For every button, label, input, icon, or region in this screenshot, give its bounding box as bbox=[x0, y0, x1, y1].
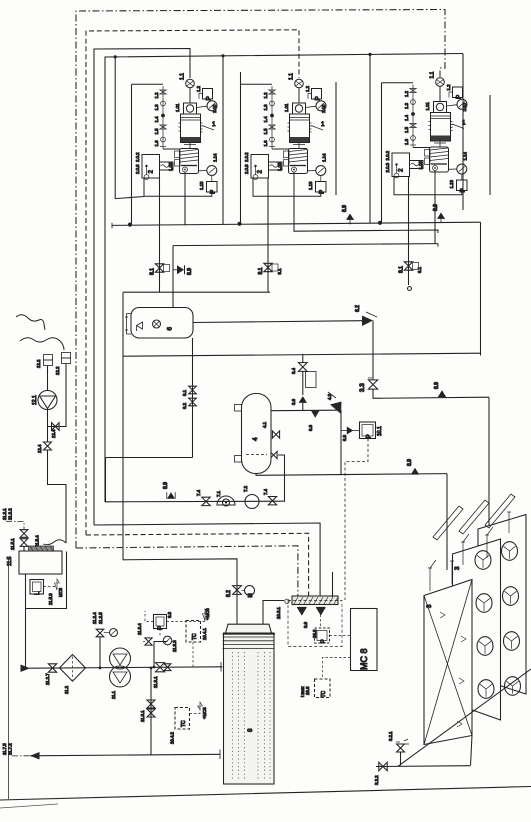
solenoid valve 8.9 (left injector) bbox=[297, 607, 307, 615]
wire: 3.3 down and right to condenser feed bbox=[373, 390, 489, 399]
svg-text:1.2: 1.2 bbox=[446, 84, 451, 91]
node: leader to item 1 bbox=[311, 126, 323, 131]
svg-text:1.14: 1.14 bbox=[213, 153, 218, 162]
svg-text:8.9: 8.9 bbox=[163, 482, 169, 489]
svg-text:1.13: 1.13 bbox=[449, 180, 454, 189]
valve 6.2 (angle valve) bbox=[362, 316, 373, 327]
svg-text:9.2: 9.2 bbox=[182, 402, 187, 409]
wire: unit3 right enclosure line bbox=[489, 95, 491, 195]
node: oil cooler drain bbox=[144, 175, 149, 180]
svg-text:12.4: 12.4 bbox=[51, 429, 56, 438]
level switch LS 11.5.3 bbox=[30, 580, 44, 595]
svg-text:8.1: 8.1 bbox=[399, 266, 405, 273]
svg-text:1.5: 1.5 bbox=[263, 128, 268, 135]
wire: dashed P6.3 to MC8 arrow bbox=[145, 611, 154, 622]
wire: dropper from unit3 oil cooler to valve 8.1 bbox=[408, 176, 410, 285]
svg-text:1.3: 1.3 bbox=[154, 104, 159, 111]
svg-text:10.4.1: 10.4.1 bbox=[202, 627, 207, 640]
wire: discharge header bus (innermost) bbox=[105, 54, 463, 503]
wire: dashed MC8 to TC 10.6 bbox=[322, 658, 350, 680]
svg-text:1.2: 1.2 bbox=[196, 85, 201, 92]
svg-text:2: 2 bbox=[148, 170, 155, 174]
valve 11.6.1 (double) bbox=[147, 700, 155, 708]
svg-text:P: P bbox=[456, 95, 463, 99]
gauge 11.3.3 bbox=[163, 636, 172, 645]
wire: oil drain down bbox=[184, 172, 186, 196]
valve 8.2 bbox=[233, 586, 242, 595]
svg-text:8.9: 8.9 bbox=[342, 434, 347, 441]
oil separator 1.03 bbox=[430, 147, 449, 172]
wire: 6.2 down to 3.3 bbox=[372, 321, 374, 380]
wire: chain bottom to body bbox=[272, 148, 289, 150]
svg-text:1.14: 1.14 bbox=[463, 152, 468, 161]
node: leader to item 1 bbox=[452, 124, 464, 129]
wire: flexible hose branch 12.2 bbox=[20, 338, 64, 350]
svg-text:11.3.4: 11.3.4 bbox=[137, 623, 142, 635]
wire: condensate outlet line bbox=[376, 765, 470, 768]
svg-text:11.2.2: 11.2.2 bbox=[8, 508, 13, 520]
wire: left page frame line bbox=[8, 557, 10, 799]
svg-text:2: 2 bbox=[398, 168, 405, 172]
check valve 8.9 on suction header (left) bbox=[346, 213, 354, 219]
svg-text:3.6: 3.6 bbox=[291, 398, 296, 405]
wire: chain bottom to body bbox=[413, 147, 430, 149]
wire: dashed 10.2 to MC8 bbox=[330, 635, 352, 637]
svg-text:11.5: 11.5 bbox=[7, 556, 13, 566]
svg-text:3.3: 3.3 bbox=[359, 383, 366, 392]
valve 3.2.2 bbox=[379, 762, 387, 770]
node: column outlet 4.6.2 bbox=[219, 750, 221, 760]
svg-text:8.9: 8.9 bbox=[303, 621, 308, 628]
pressure switch P 6.3 bbox=[154, 615, 167, 629]
heat exchanger coil of oil cooler bbox=[410, 161, 424, 169]
flange rings of column 8 bbox=[223, 637, 275, 648]
svg-text:11.7.2: 11.7.2 bbox=[8, 743, 13, 755]
svg-text:1.2: 1.2 bbox=[305, 85, 310, 92]
wire: unit bottom piping bbox=[144, 178, 212, 196]
wire: to pump 12.1 bbox=[47, 366, 49, 391]
svg-text:1: 1 bbox=[321, 121, 325, 128]
svg-text:+MC8: +MC8 bbox=[202, 707, 207, 719]
wire: long suction header y=224 bbox=[112, 222, 481, 225]
svg-text:1.6: 1.6 bbox=[263, 140, 268, 147]
heater grid on tank 11.5 bbox=[29, 546, 54, 551]
valve 8.1 (unit1 liquid feed) bbox=[155, 264, 163, 272]
svg-text:t max: t max bbox=[300, 686, 305, 697]
svg-text:8.9: 8.9 bbox=[434, 382, 440, 389]
svg-text:1.10: 1.10 bbox=[462, 103, 467, 112]
svg-text:1.2: 1.2 bbox=[263, 92, 268, 99]
valve 11.3.4 bbox=[145, 638, 152, 645]
valve 9.1 bbox=[189, 386, 197, 394]
wire: column top to distributor bbox=[263, 601, 284, 625]
svg-text:P: P bbox=[206, 96, 213, 100]
pump 7.1 bbox=[217, 496, 235, 505]
wire: bottom page frame line bbox=[0, 787, 531, 801]
node: receiver inlet dot bbox=[172, 307, 175, 310]
valve chain 1.2-1.6 (unloaders) bbox=[162, 86, 164, 149]
injection header 10.3.1 (hatched) bbox=[292, 596, 338, 605]
wire: perspective pipe to condenser bases bbox=[398, 669, 531, 766]
safety valve mark on vessel 6 bbox=[137, 322, 143, 331]
wire: down to transfer line bbox=[48, 450, 67, 543]
nozzle: vessel 4 upper left bbox=[235, 405, 242, 412]
motor M of agitator bbox=[245, 586, 255, 596]
dashed enclosure around injectors bbox=[288, 601, 342, 647]
valve 11.5.1 (upper) bbox=[20, 530, 28, 538]
svg-text:10.6: 10.6 bbox=[305, 686, 310, 695]
wire: TC dashed drop bbox=[192, 642, 194, 667]
svg-text:12.4: 12.4 bbox=[37, 444, 42, 453]
wire: vessel 4 vapor line bbox=[271, 409, 337, 412]
wire: chain top to enclosure bbox=[132, 83, 164, 85]
svg-text:8: 8 bbox=[247, 728, 254, 732]
fans of rear condenser bbox=[502, 542, 518, 561]
pressure switch P 1.13 bbox=[320, 176, 322, 182]
wire: unit1 oil drain extension bbox=[184, 196, 186, 225]
svg-text:4.3: 4.3 bbox=[327, 393, 332, 400]
svg-text:1.10: 1.10 bbox=[212, 104, 217, 113]
wire: dropper from unit1 oil cooler to valve 8.1 bbox=[159, 178, 161, 292]
valve 3.4 bbox=[302, 354, 304, 363]
main process line into column bbox=[30, 667, 223, 668]
wire: dashed P6.3 to line bbox=[159, 629, 161, 638]
valve 1.1 (suction inlet) bbox=[186, 79, 195, 88]
wire: bus 2 bottom run to dropper bbox=[86, 533, 309, 597]
node: leader to item 1 bbox=[202, 126, 214, 131]
valve 11.5.1 (lower) bbox=[20, 539, 28, 547]
nozzle: distributor inlet bbox=[285, 599, 289, 603]
compressor 1 body bbox=[431, 113, 451, 142]
wire: vertical right of unit 3 bbox=[462, 54, 464, 211]
svg-text:1.14: 1.14 bbox=[322, 153, 327, 162]
wire: unit2 left enclosure line bbox=[240, 72, 242, 224]
arrow: return to plant bbox=[30, 752, 40, 760]
wire: header y=245 to third 8.1 valve area bbox=[173, 244, 438, 246]
svg-text:3.4: 3.4 bbox=[291, 367, 296, 374]
wire: flexible hose to pump 12.1 bbox=[16, 315, 45, 330]
svg-text:M: M bbox=[248, 593, 254, 597]
svg-text:2.0.2: 2.0.2 bbox=[244, 152, 249, 162]
pressure switch P 10.2 bbox=[315, 628, 330, 643]
svg-text:7.4: 7.4 bbox=[263, 488, 268, 495]
wire: minimum flow branch bbox=[99, 637, 101, 668]
svg-text:6.2: 6.2 bbox=[355, 305, 361, 312]
wire: oil drain down bbox=[434, 171, 436, 195]
flow marks on condenser faces bbox=[457, 636, 466, 727]
pressure switch P 1.2 bbox=[203, 89, 213, 100]
flange connection 12.2 (right) bbox=[62, 353, 71, 359]
svg-text:TC: TC bbox=[321, 690, 327, 697]
svg-text:11.6.1: 11.6.1 bbox=[140, 710, 145, 722]
svg-text:8.9: 8.9 bbox=[308, 424, 313, 431]
wire: long line y=356 to right bus bbox=[123, 353, 480, 356]
wire: body to separator bbox=[184, 143, 196, 149]
svg-text:1.4: 1.4 bbox=[154, 116, 159, 123]
svg-text:7.1: 7.1 bbox=[216, 490, 221, 497]
oil tank 11.5 bbox=[19, 551, 62, 574]
svg-text:11.2.4: 11.2.4 bbox=[92, 612, 97, 624]
svg-text:11.2.7: 11.2.7 bbox=[45, 673, 50, 685]
pump 7.2 bbox=[245, 495, 259, 509]
motor head 1.01 bbox=[184, 103, 197, 114]
evaporative condenser 3 (middle unit) bbox=[453, 539, 501, 720]
valve 1.03 block bbox=[284, 151, 290, 158]
svg-text:1.13: 1.13 bbox=[199, 181, 204, 190]
svg-text:2.0.2: 2.0.2 bbox=[385, 150, 390, 160]
svg-text:TC: TC bbox=[192, 633, 198, 640]
wire: vessel 6 to valve 6.2 bbox=[193, 321, 362, 323]
wire: dropper from unit2 oil cooler to valve 8.1 bbox=[267, 178, 269, 292]
evaporative condenser 3 (front unit, coil face) bbox=[424, 580, 472, 745]
svg-text:8.1: 8.1 bbox=[417, 266, 422, 273]
svg-text:12.2: 12.2 bbox=[36, 359, 41, 368]
valve 8.1 (unit3) bbox=[404, 262, 412, 270]
node: vessel 4 level line bbox=[246, 454, 267, 456]
wire: box line over receiver bbox=[123, 291, 270, 293]
wire: chain top to enclosure bbox=[382, 82, 414, 84]
svg-text:1: 1 bbox=[462, 120, 466, 127]
valve 4.1 bbox=[270, 434, 273, 436]
pressure switch P 1.13 bbox=[211, 176, 213, 182]
valve 8.1 (unit2) bbox=[264, 263, 272, 271]
svg-text:11.3.3: 11.3.3 bbox=[172, 640, 177, 652]
dip tubes inside column 8 bbox=[233, 652, 271, 779]
gauge 1.14 (oil pressure) bbox=[449, 168, 457, 170]
svg-text:1.3: 1.3 bbox=[404, 102, 409, 109]
svg-text:8.1: 8.1 bbox=[150, 268, 156, 275]
wire: tank drain to feed line bbox=[26, 609, 31, 669]
wire: bus continues right to condensate dropper bbox=[76, 546, 298, 597]
svg-text:8.1: 8.1 bbox=[258, 267, 264, 274]
svg-text:3.2.2: 3.2.2 bbox=[374, 775, 379, 785]
svg-text:1.1: 1.1 bbox=[430, 71, 436, 78]
arrow: feed from plant bbox=[21, 665, 31, 673]
svg-text:L: L bbox=[34, 591, 41, 595]
svg-text:2.0.3: 2.0.3 bbox=[135, 164, 140, 174]
svg-text:8.9: 8.9 bbox=[433, 204, 439, 211]
svg-text:3: 3 bbox=[426, 604, 433, 608]
wire: dropper from discharge header to unit1 piping bbox=[115, 57, 144, 199]
wire: suction line to unit 1 (solid bus) bbox=[94, 49, 190, 526]
svg-text:2.0.3: 2.0.3 bbox=[385, 162, 390, 172]
node: vessel 6 port bbox=[153, 320, 161, 328]
valve 1.03 block bbox=[425, 150, 431, 157]
strainer 11.2 bbox=[60, 655, 86, 682]
svg-text:7.4: 7.4 bbox=[196, 489, 201, 496]
valve 7.4 (pump inlet) bbox=[202, 497, 210, 505]
oil separator 1.03 bbox=[180, 149, 199, 174]
svg-text:9.1: 9.1 bbox=[182, 389, 187, 396]
svg-text:3: 3 bbox=[454, 566, 461, 570]
svg-text:10.4.2: 10.4.2 bbox=[170, 731, 175, 744]
compressor package unit 3 bbox=[382, 71, 468, 194]
oil cooler 2 bbox=[392, 153, 410, 177]
svg-text:7.2: 7.2 bbox=[243, 485, 248, 492]
svg-text:1.13: 1.13 bbox=[308, 181, 313, 190]
compressor 1 body bbox=[181, 114, 201, 143]
wire: branch from flange 12.2 bbox=[48, 364, 67, 427]
svg-text:1.1: 1.1 bbox=[289, 73, 295, 80]
check valve 8.9 (unit1 stub) bbox=[173, 269, 177, 271]
gauge 1.14 (oil pressure) bbox=[199, 170, 207, 172]
motor head 1.01 bbox=[293, 103, 306, 114]
pressure switch P 1.13 bbox=[461, 174, 463, 180]
wire: suction line to unit 2 (dashed bus) bbox=[86, 30, 299, 535]
temperature controller TC 10.6 bbox=[315, 679, 331, 698]
valve 1.03 block bbox=[175, 151, 181, 158]
wire: liquid drop line from receiver box bbox=[122, 292, 124, 560]
svg-text:4.1: 4.1 bbox=[262, 421, 267, 428]
wire: 4.3 drop to liquid line bbox=[340, 410, 342, 474]
valve 3.6 (relief) bbox=[299, 396, 307, 403]
svg-text:1.01: 1.01 bbox=[175, 103, 180, 112]
wire: pump discharge riser bbox=[278, 455, 285, 501]
column vessel 8 bbox=[224, 633, 275, 784]
valve 12.4 (main) bbox=[44, 442, 52, 450]
svg-text:P: P bbox=[366, 434, 373, 438]
svg-text:1.3: 1.3 bbox=[263, 104, 268, 111]
pump set 11.1 bbox=[110, 648, 131, 669]
wire: dashed to MC8 bbox=[44, 586, 58, 588]
gauge 11.2.4 bbox=[110, 629, 118, 637]
svg-text:11.2.1: 11.2.1 bbox=[2, 508, 7, 520]
svg-text:11.5.4: 11.5.4 bbox=[35, 535, 40, 547]
wire: inlet to motor bbox=[439, 87, 441, 102]
check valve 8.9 (liquid header) bbox=[411, 468, 419, 474]
svg-text:8.1: 8.1 bbox=[277, 268, 282, 275]
valve 9.2 bbox=[189, 398, 197, 406]
oil separator 1.03 bbox=[289, 149, 308, 174]
svg-text:1.10: 1.10 bbox=[321, 104, 326, 113]
motor head 1.01 bbox=[434, 102, 447, 113]
node: column inlet 4.6.1 bbox=[220, 662, 222, 672]
svg-text:MC 8: MC 8 bbox=[359, 648, 369, 670]
valve 1.1 (suction inlet) bbox=[295, 79, 304, 88]
posts on condenser tops bbox=[428, 560, 436, 591]
wire: right bus vertical to condenser line bbox=[480, 222, 482, 355]
bypass pot of 3.4 bbox=[306, 372, 317, 388]
svg-text:P: P bbox=[157, 626, 164, 630]
temperature controller TC 10.4.1 bbox=[186, 621, 201, 643]
wire: bus 3 bottom run to dropper bbox=[94, 523, 320, 597]
wire: unit3 oil drain extension bbox=[434, 195, 436, 244]
node: oil drain port bbox=[183, 167, 188, 172]
control panel MC 8 bbox=[351, 609, 378, 671]
wire: pump outlet bbox=[47, 410, 49, 442]
compressor 1 body bbox=[290, 114, 310, 143]
pressure switch P 1.2 bbox=[312, 89, 322, 100]
wire: drop to receiver vessel 6 bbox=[172, 246, 174, 308]
check valve 8.9 (pump suction) bbox=[167, 492, 175, 498]
wire: recirculation drop 11.6.1 bbox=[150, 668, 152, 756]
temperature controller TC 10.4.2 bbox=[175, 708, 190, 730]
wire: chain top to enclosure bbox=[241, 83, 273, 85]
wire: liquid header drop to condenser bbox=[446, 474, 448, 570]
svg-text:P: P bbox=[210, 190, 217, 194]
valve 7.4 (pump outlet) bbox=[268, 497, 276, 505]
valve chain 1.2-1.6 (unloaders) bbox=[271, 86, 273, 149]
receiver vessel 6 bbox=[131, 308, 193, 339]
svg-text:11.7.5: 11.7.5 bbox=[2, 743, 7, 755]
svg-text:2.0.3: 2.0.3 bbox=[244, 164, 249, 174]
svg-text:1.4: 1.4 bbox=[404, 114, 409, 121]
gauge 1.10 (suction pressure) bbox=[316, 101, 326, 111]
wire: oil drain down bbox=[293, 172, 295, 196]
check valve 8.9 to pressure switch 10.1 bbox=[341, 430, 360, 432]
pressure switch P 10.1 bbox=[360, 422, 376, 439]
svg-text:8.9: 8.9 bbox=[187, 268, 193, 275]
svg-text:MC8: MC8 bbox=[58, 587, 63, 597]
valve at vessel 4 bottom outlet bbox=[270, 451, 277, 458]
svg-text:6.3: 6.3 bbox=[167, 611, 172, 618]
node: open end below unit3 valve bbox=[408, 287, 412, 291]
wire: 3.4 to 3.6 bbox=[302, 372, 304, 396]
wire: inlet to motor bbox=[189, 88, 191, 103]
svg-text:P: P bbox=[460, 188, 467, 192]
wire: body to separator bbox=[293, 143, 305, 149]
pressure switch P 1.2 bbox=[453, 87, 463, 98]
svg-text:TC: TC bbox=[181, 720, 187, 727]
svg-text:1: 1 bbox=[212, 121, 216, 128]
svg-text:3.2.1: 3.2.1 bbox=[388, 731, 393, 741]
level gauge on vessel 6 bbox=[125, 314, 131, 335]
gauge 1.10 (suction pressure) bbox=[457, 99, 467, 109]
valve 12.4 (branch) bbox=[52, 423, 60, 431]
heat exchanger coil of oil cooler bbox=[160, 162, 174, 170]
svg-text:P: P bbox=[315, 96, 322, 100]
wire: 4th feed stub into distributor bbox=[332, 572, 334, 597]
valve 1.05 block bbox=[284, 160, 290, 167]
valve 1.05 block bbox=[175, 160, 181, 167]
valve 1.05 block bbox=[425, 158, 431, 165]
svg-text:12.2: 12.2 bbox=[55, 366, 60, 375]
svg-text:1.2: 1.2 bbox=[404, 90, 409, 97]
svg-text:11.2: 11.2 bbox=[64, 685, 69, 694]
check valve 8.9 (vessel 4 vapor) bbox=[311, 411, 320, 418]
wire: pump suction line bbox=[105, 500, 285, 503]
svg-text:8.9: 8.9 bbox=[342, 205, 348, 212]
svg-text:10.1: 10.1 bbox=[377, 426, 383, 436]
wire: oil return to column valve 8.2 bbox=[123, 559, 237, 624]
check valve 8.9 (condenser feed) bbox=[438, 390, 446, 396]
wire: into tank bbox=[23, 547, 25, 552]
wire: body to separator bbox=[434, 141, 446, 147]
pump 12.1 bbox=[38, 391, 57, 410]
svg-text:4: 4 bbox=[252, 437, 259, 441]
wire: front condenser outlet drop bbox=[471, 736, 473, 766]
valve 11.2.5 bbox=[96, 629, 104, 637]
wire: unit2 right enclosure line bbox=[335, 82, 337, 195]
valve 11.3.1 (control) bbox=[155, 663, 164, 672]
node: header dots bbox=[128, 223, 132, 227]
flange connection 12.2 (left) bbox=[44, 355, 53, 361]
wire: condenser feed drop bbox=[488, 397, 490, 553]
compressor package unit 2 bbox=[241, 73, 327, 196]
gauge 1.14 (oil pressure) bbox=[308, 170, 316, 172]
compressor package unit 1 bbox=[132, 73, 218, 196]
node: oil drain port bbox=[292, 167, 297, 172]
wire: dashed control from 10.1 bbox=[345, 439, 368, 601]
valve 3.3 bbox=[368, 380, 377, 389]
svg-text:10.3.1: 10.3.1 bbox=[276, 606, 281, 619]
fans of middle condenser bbox=[475, 551, 491, 570]
wire: gauge branch 11.3 bbox=[154, 642, 168, 668]
oil cooler 2 bbox=[142, 155, 160, 179]
svg-text:1.2: 1.2 bbox=[154, 92, 159, 99]
wire: bottom return line bbox=[30, 754, 221, 756]
oil cooler 2 bbox=[251, 155, 269, 179]
